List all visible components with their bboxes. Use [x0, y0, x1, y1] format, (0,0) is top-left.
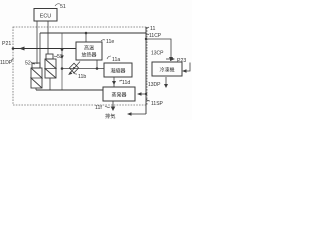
expansion valve 11b symbol (diamond with arrow) — [69, 63, 78, 73]
solenoid valve 53 label — [54, 55, 57, 58]
exhaust arrow down — [112, 101, 114, 108]
svg-text:11e: 11e — [106, 39, 114, 45]
svg-text:排気: 排気 — [105, 112, 115, 120]
arrow down 13DP — [165, 77, 167, 85]
pipe horizontal y=68.5 to condenser 11a — [62, 68, 104, 70]
svg-text:51: 51 — [60, 4, 66, 10]
svg-text:11d: 11d — [122, 80, 130, 86]
arrow left on pipe — [19, 47, 25, 51]
pipe valve52 bottom — [35, 88, 37, 90]
svg-text:凝縮器: 凝縮器 — [110, 68, 125, 75]
svg-text:11CP: 11CP — [149, 33, 162, 39]
arrow elbow into box right — [186, 63, 190, 72]
ECU U51 box — [34, 9, 57, 22]
svg-text:11f: 11f — [95, 105, 102, 111]
node junction 62,50 — [61, 48, 64, 51]
pipe arrow into evaporator right — [140, 93, 146, 95]
svg-text:蒸発器: 蒸発器 — [111, 92, 126, 99]
svg-text:ECU: ECU — [40, 14, 51, 20]
label 11 — [146, 27, 149, 28]
svg-text:52: 52 — [25, 61, 31, 67]
svg-text:P21: P21 — [2, 41, 11, 47]
svg-text:高温: 高温 — [84, 45, 94, 52]
pipe 11e bottom drop — [96, 60, 98, 69]
pipe bottom-right elbow — [130, 113, 146, 115]
pipe drop to valve 52 — [39, 33, 41, 68]
svg-text:53: 53 — [57, 54, 63, 60]
pipe top horizontal y=33 — [40, 32, 146, 34]
outer unit box 11 (dotted boundary) — [13, 27, 147, 105]
heat exchanger box 11e — [76, 42, 102, 60]
svg-text:放熱器: 放熱器 — [81, 52, 96, 59]
arrow down on x62 pipe — [60, 55, 64, 59]
pipe valve53 bottom — [49, 78, 51, 90]
pipe vertical x=62 — [61, 33, 63, 90]
node junction 97,68.5 — [96, 67, 99, 70]
label 11e — [101, 40, 105, 41]
evaporator box 11c — [103, 87, 135, 101]
solenoid valve 52 body — [31, 68, 42, 88]
svg-text:11a: 11a — [112, 57, 120, 63]
label 11SP — [146, 99, 150, 101]
refrigerator box 13 — [152, 62, 182, 76]
arrow P23 — [166, 58, 172, 60]
pipe drop to heat exchanger 11e — [85, 33, 87, 42]
label 11b — [73, 73, 77, 75]
condenser box 11a — [104, 63, 132, 77]
label 51 leader — [55, 4, 60, 6]
node junction 146,39 — [145, 38, 147, 40]
label 11d — [119, 80, 122, 81]
svg-text:11: 11 — [150, 26, 155, 32]
solenoid valve 52 coil — [32, 63, 40, 68]
node junction at 86,33 — [85, 32, 88, 35]
pipe elbow to refrigerator unit — [146, 39, 171, 58]
svg-text:11DP: 11DP — [0, 60, 13, 66]
node junction 146,94 — [145, 93, 147, 95]
svg-text:13DP: 13DP — [148, 82, 161, 88]
pipe 11a to 11c vertical — [113, 77, 115, 87]
label 11a — [107, 56, 111, 59]
node junction 62,68.5 — [61, 67, 64, 70]
node junction at 13,48 — [12, 47, 15, 50]
pipe right vertical x=146 — [145, 27, 147, 114]
pipe bottom horizontal to evaporator — [36, 89, 103, 91]
arrow down on pipe — [112, 81, 116, 85]
svg-text:冷凍機: 冷凍機 — [159, 67, 174, 74]
svg-text:11b: 11b — [78, 74, 86, 80]
label 11CP — [146, 33, 149, 36]
wire ECU leg to valve 53 coil — [47, 21, 49, 54]
svg-text:13CP: 13CP — [151, 51, 164, 57]
wire ECU leg to valve 52 coil — [36, 21, 38, 64]
svg-text:11SP: 11SP — [151, 101, 164, 107]
solenoid valve 53 body — [45, 59, 56, 78]
solenoid valve 53 coil — [46, 54, 53, 59]
pipe with left arrow y=48 — [13, 48, 76, 50]
